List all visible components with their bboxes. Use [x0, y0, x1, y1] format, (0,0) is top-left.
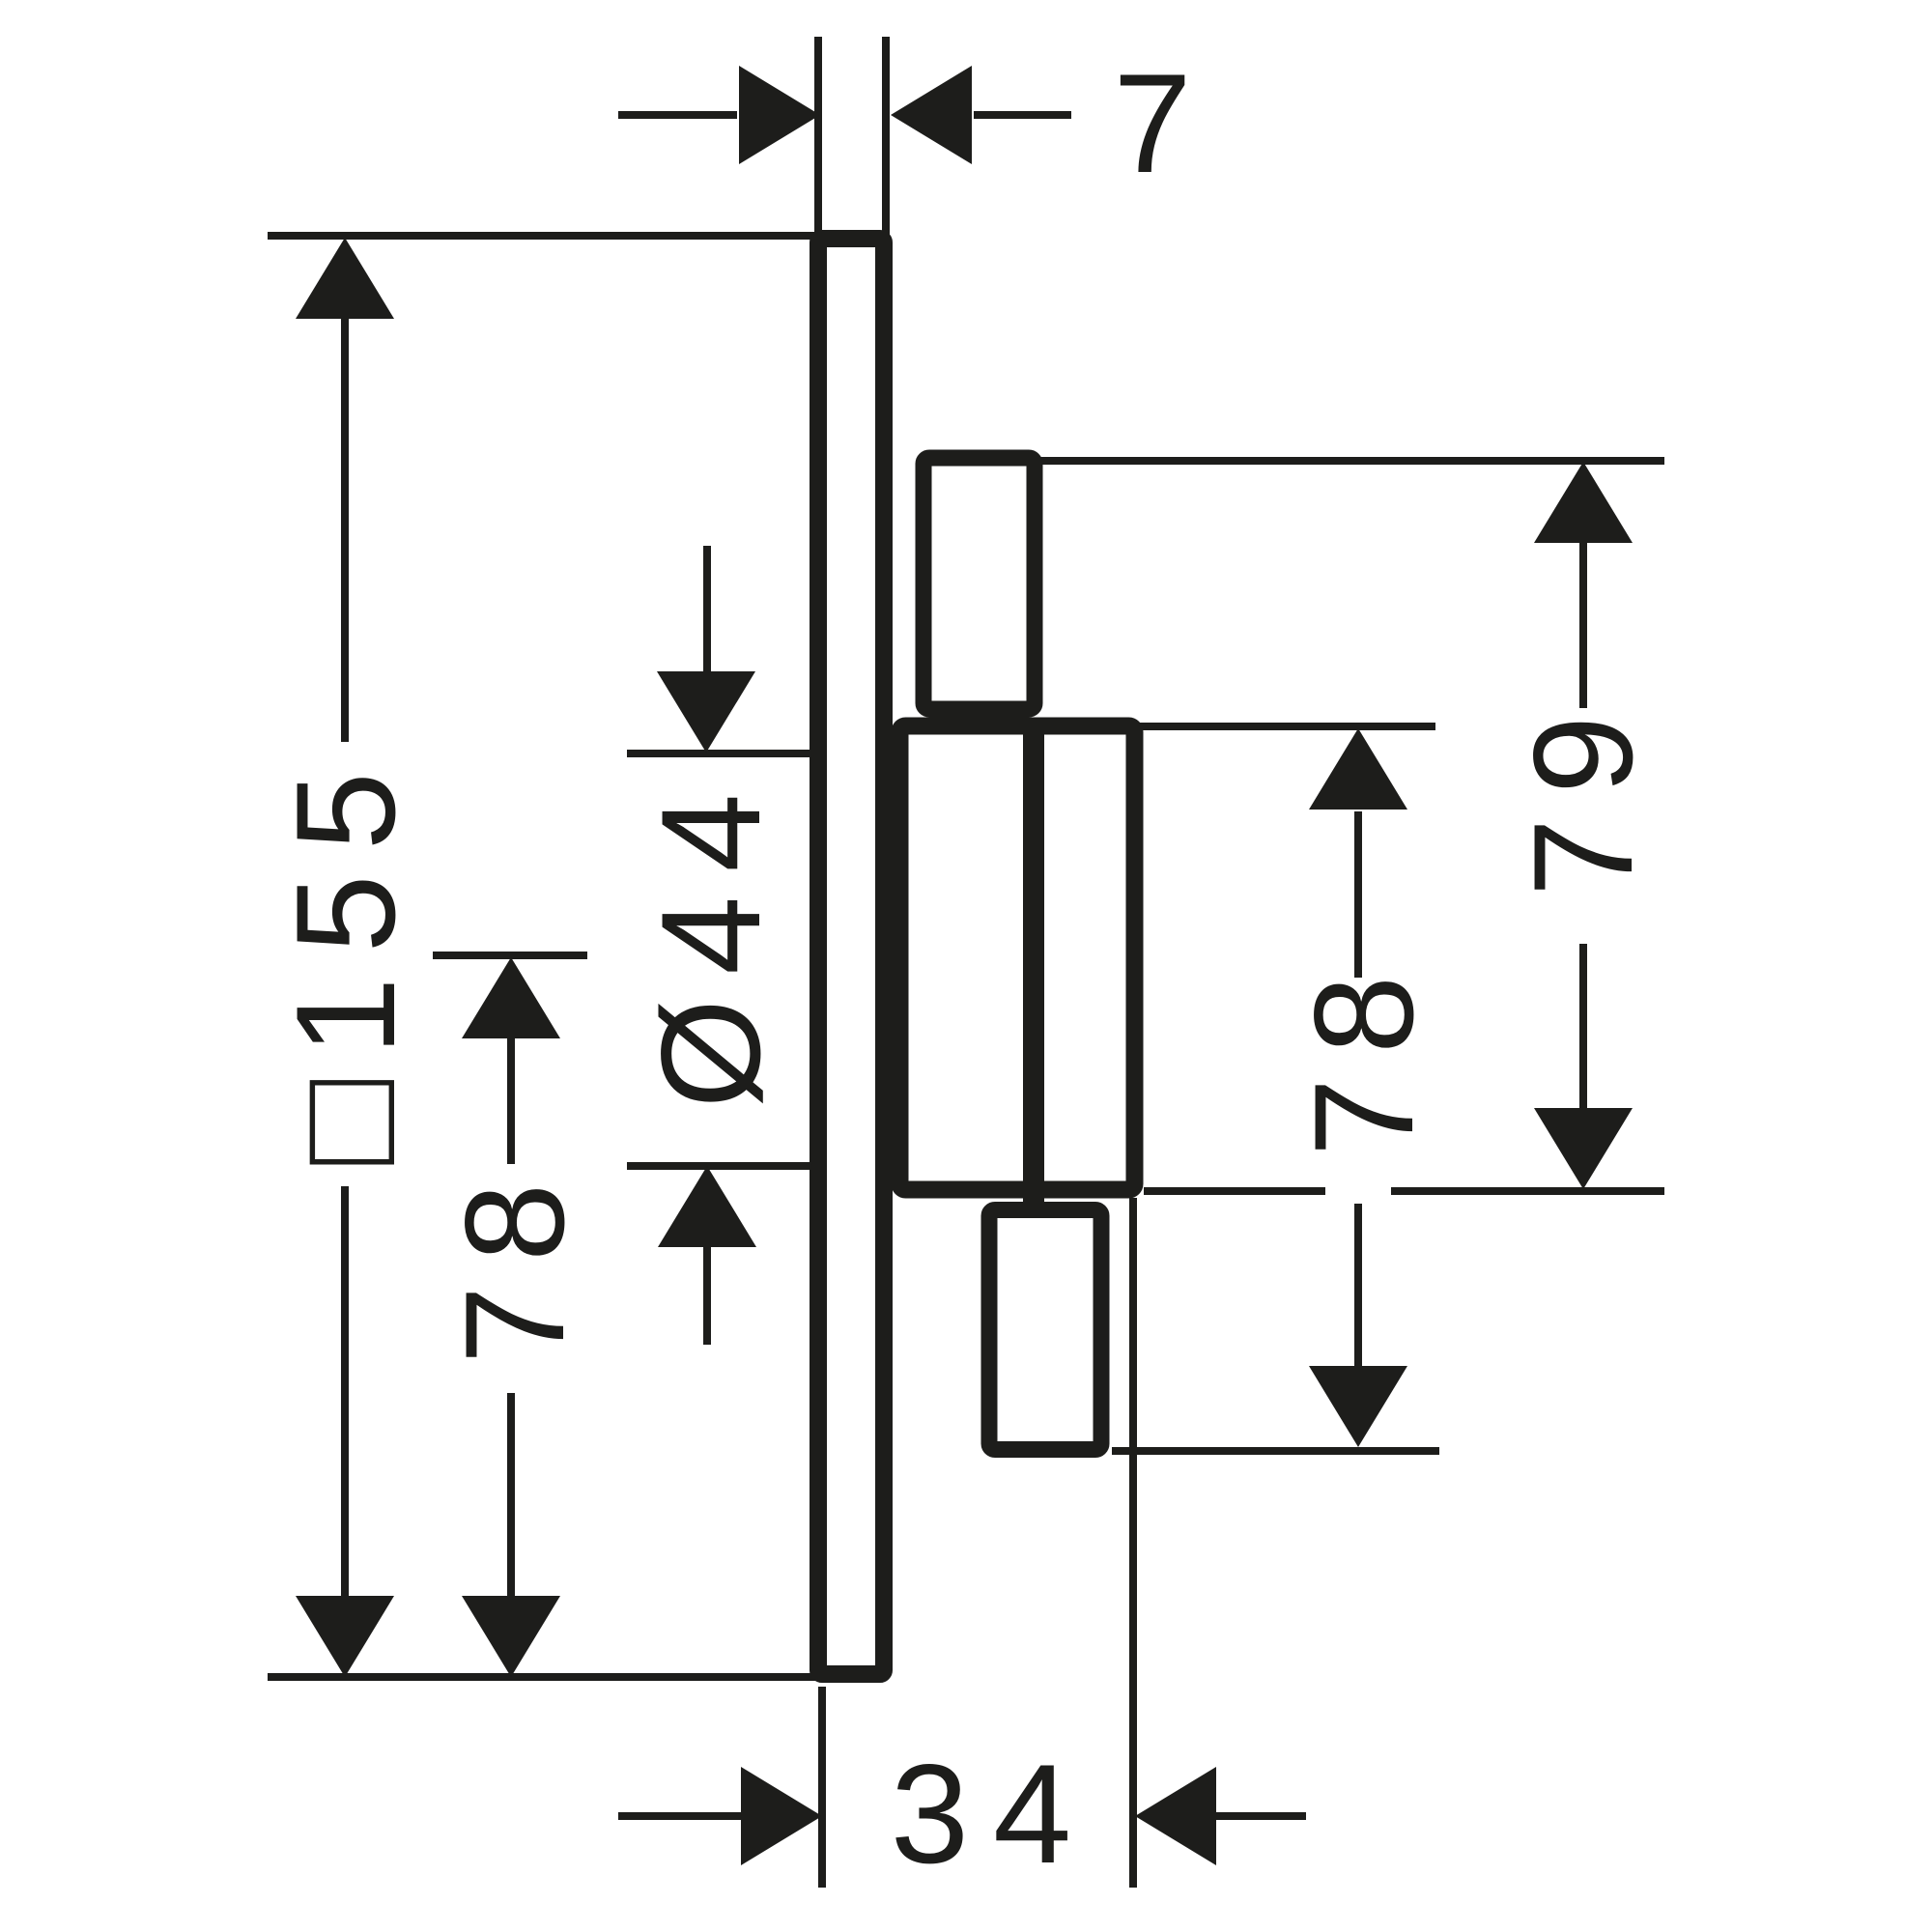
extension line 79/78 bottom right segment: [1391, 1187, 1664, 1195]
svg-text:78: 78: [436, 1159, 593, 1364]
dimension 78 left line lower: [507, 1393, 515, 1598]
svg-text:7: 7: [1113, 44, 1191, 202]
svg-text:78: 78: [1285, 952, 1442, 1156]
dimension square-155 line lower: [341, 1186, 349, 1598]
dimension 7 right tail: [974, 111, 1071, 119]
extension tick centre line (78 left top): [433, 952, 587, 959]
svg-text:Ø44: Ø44: [632, 770, 789, 1109]
dimension 34 left tail: [618, 1812, 743, 1820]
dimension 7 right arrowhead: [891, 66, 972, 164]
dimension diameter-44 lower tail: [703, 1242, 711, 1345]
dimension 7 left tail: [618, 111, 737, 119]
extension line 78 right top: [1140, 723, 1435, 730]
body (valve housing, side view): [900, 726, 1135, 1190]
svg-text:79: 79: [1504, 692, 1662, 896]
body inner step line: [1023, 725, 1044, 1208]
dimension 7 left arrowhead: [739, 66, 820, 164]
dimension square-155 top arrowhead: [296, 238, 394, 319]
svg-text:□155: □155: [267, 748, 424, 1165]
upper handle stub: [923, 458, 1035, 709]
extension line bottom (square 155): [268, 1673, 817, 1681]
dimension 78 left line upper: [507, 1036, 515, 1164]
lower handle stub: [989, 1210, 1101, 1450]
dimension square-155 bottom arrowhead: [296, 1596, 394, 1677]
extension line 78 right bottom: [1112, 1447, 1439, 1455]
extension line 79 top: [1030, 457, 1664, 465]
dimension 79 line lower: [1579, 944, 1587, 1109]
dimension 78 left bottom arrowhead: [462, 1596, 560, 1677]
dimension 78 left top arrowhead: [462, 957, 560, 1038]
dimension 34 right tail: [1214, 1812, 1306, 1820]
dimension 78 right line lower: [1354, 1204, 1362, 1366]
svg-text:34: 34: [891, 1735, 1095, 1892]
dimension 78 right bottom arrowhead: [1309, 1366, 1407, 1447]
dimension 78 right top arrowhead: [1309, 728, 1407, 810]
dimension 79 bottom arrowhead: [1534, 1108, 1633, 1189]
extension line plate front face (top): [814, 37, 822, 240]
extension line top (square 155): [268, 232, 817, 240]
extension line diameter 44 top: [627, 750, 814, 757]
dimension 78 right line upper: [1354, 811, 1362, 978]
dimension 34 right arrowhead: [1135, 1767, 1216, 1865]
dimension 34 left arrowhead: [741, 1767, 822, 1865]
dimension 79 top arrowhead: [1534, 462, 1633, 543]
extension line 34 right: [1129, 1198, 1137, 1888]
extension line plate back face (top): [882, 37, 890, 240]
dimension 79 line upper: [1579, 542, 1587, 708]
dimension diameter-44 upper tail: [703, 546, 711, 676]
extension line 79/78 bottom left segment: [1144, 1187, 1325, 1195]
dimension square-155 line upper: [341, 317, 349, 742]
wall plate (escutcheon, side view): [818, 239, 884, 1674]
dimension diameter-44 lower arrowhead: [658, 1166, 756, 1247]
extension line 34 left: [818, 1687, 826, 1888]
dimension diameter-44 upper arrowhead: [657, 671, 755, 753]
extension line diameter 44 bottom: [627, 1162, 814, 1170]
